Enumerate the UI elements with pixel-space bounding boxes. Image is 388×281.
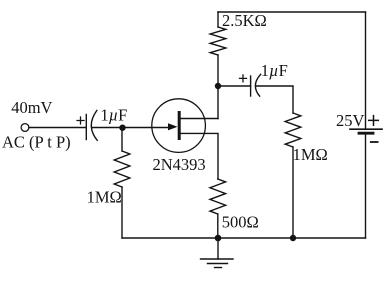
wire gate node down to R4: [121, 128, 123, 151]
wire source line to 500 ohm: [180, 133, 218, 179]
svg-text:25V: 25V: [336, 111, 365, 130]
node gate junction dot: [119, 125, 125, 131]
wire top rail: [218, 11, 366, 13]
resistor R4 1M ohm gate: [114, 151, 130, 187]
resistor R2 1M ohm load: [285, 113, 301, 147]
battery B1 long plate (+): [350, 128, 382, 130]
wire drain node to capacitor C2: [218, 85, 251, 87]
wire input terminal to C1: [29, 127, 87, 129]
transistor Q1 channel bar: [178, 113, 181, 139]
wire R1 bottom to drain node and drain line: [217, 55, 219, 119]
wire C1 to gate node: [92, 127, 122, 129]
battery minus sign: [371, 141, 378, 143]
wire lead top rail to R1: [217, 12, 219, 27]
transistor Q1 body circle: [152, 99, 206, 153]
wire gate from node to arrow: [123, 127, 169, 129]
capacitor C1 straight plate: [85, 115, 87, 140]
svg-text:1MΩ: 1MΩ: [293, 145, 328, 164]
node drain junction dot: [215, 83, 221, 89]
svg-text:1µF: 1µF: [261, 61, 288, 80]
capacitor C1 plus sign: [77, 117, 84, 124]
resistor R3 500 ohm source: [210, 179, 226, 214]
svg-text:1µF: 1µF: [100, 106, 127, 125]
wire right vertical (bottom, battery - to rail): [365, 134, 367, 238]
wire right vertical (top, to battery +): [365, 12, 367, 129]
capacitor C2 plus sign: [240, 75, 247, 82]
wire C2 to output corner: [256, 86, 293, 113]
resistor R1 2.5K ohm drain: [210, 27, 226, 55]
svg-text:2.5KΩ: 2.5KΩ: [222, 11, 267, 30]
svg-text:40mV: 40mV: [11, 98, 52, 117]
battery plus sign: [369, 116, 379, 126]
transistor Q1 gate arrow: [168, 123, 178, 130]
node source/ground junction dot: [215, 235, 222, 242]
input terminal circle: [21, 124, 29, 132]
svg-text:2N4393: 2N4393: [153, 155, 206, 174]
wire R4 bottom to rail corner: [121, 187, 123, 238]
ground bars: [201, 258, 234, 260]
wire R3 bottom to rail: [217, 214, 219, 238]
ground stem: [217, 238, 219, 259]
svg-text:500Ω: 500Ω: [222, 213, 259, 232]
wire R2 bottom to bottom rail: [292, 147, 294, 238]
capacitor C2 curved plate: [255, 74, 260, 96]
battery B1 short plate (-): [359, 132, 373, 135]
svg-text:1MΩ: 1MΩ: [87, 188, 122, 207]
capacitor C2 straight plate: [250, 76, 252, 96]
capacitor C1 curved plate: [91, 111, 97, 141]
svg-text:AC (P t P): AC (P t P): [2, 132, 71, 151]
wire bottom rail: [122, 237, 366, 239]
node output/rail junction dot: [290, 235, 296, 241]
wire drain line from transistor: [180, 118, 218, 120]
